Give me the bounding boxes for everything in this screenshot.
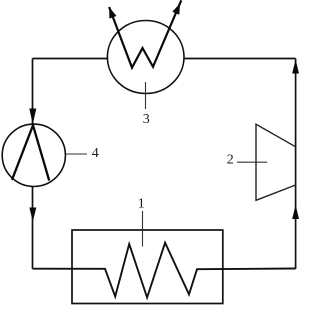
svg-text:1: 1 — [138, 196, 145, 211]
wire: top horizontal from condenser loop — [33, 58, 296, 60]
valve lambda legs — [12, 125, 49, 180]
wire: left vertical — [32, 59, 34, 269]
arrow down below valve — [29, 208, 36, 222]
arrowhead right W — [172, 3, 180, 15]
tick for label 4 — [66, 153, 87, 155]
arrow down above valve — [29, 109, 36, 125]
wire: bottom run with evaporator zigzag — [33, 243, 296, 298]
tick for label 2 — [237, 161, 267, 163]
compressor trapezoid U2 — [256, 124, 296, 200]
svg-text:3: 3 — [143, 112, 150, 127]
arrow up below compressor — [292, 205, 299, 219]
svg-text:2: 2 — [227, 153, 234, 168]
expansion valve circle U4 — [2, 124, 65, 186]
condenser circle U3 — [107, 21, 184, 94]
tick for label 1 — [142, 211, 144, 247]
wire: right vertical — [295, 59, 297, 269]
evaporator rectangle U1 — [72, 230, 223, 304]
condenser W element — [109, 0, 181, 67]
arrow up top of right wire — [292, 60, 299, 74]
arrowhead left W — [109, 7, 116, 19]
tick for label 3 — [145, 82, 147, 109]
svg-text:4: 4 — [92, 146, 99, 161]
